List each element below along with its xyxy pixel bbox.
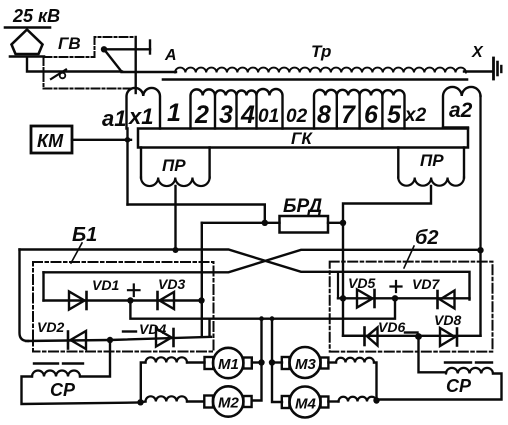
- diode VD2 cathode bar: [67, 332, 70, 349]
- motor M3: [290, 347, 321, 378]
- wire winding end X to ground: [464, 70, 492, 72]
- GV switch blade: [104, 49, 122, 71]
- diode VD7: [440, 291, 455, 309]
- wire SR to M2 coil: [141, 400, 146, 403]
- svg-text:СР: СР: [50, 380, 76, 400]
- svg-text:VD1: VD1: [92, 277, 119, 293]
- tap box a2 bottom edge: [443, 126, 468, 128]
- secondary tap group box 8-7-6-5: [314, 90, 404, 129]
- resistor BRD box: [280, 216, 329, 233]
- junction dot SR left output: [137, 399, 143, 405]
- transformer Tr primary winding: [175, 68, 466, 73]
- diode VD7 cathode bar: [436, 291, 439, 308]
- svg-text:х1: х1: [128, 104, 153, 129]
- diode VD1: [69, 292, 85, 310]
- secondary tap box a2: [443, 87, 481, 128]
- contact wire: [5, 26, 50, 29]
- tap divider 6|5: [381, 96, 383, 129]
- GV fixed contact line: [104, 48, 150, 50]
- junction dot M1 feed: [258, 359, 264, 365]
- motor M2 left brush: [204, 396, 213, 408]
- ground bar 2: [496, 62, 499, 75]
- diode VD4: [156, 329, 172, 347]
- rectifier B2 cabinet rect: [330, 262, 493, 352]
- junction dot KM riser: [125, 137, 131, 143]
- svg-text:КМ: КМ: [37, 131, 64, 151]
- SR left box: [22, 377, 141, 405]
- motor M4 right brush: [321, 397, 329, 408]
- wire a2 down right side: [479, 96, 481, 250]
- svg-text:М1: М1: [218, 356, 239, 373]
- disconnector blade: [51, 70, 66, 80]
- leader line B2: [404, 246, 414, 268]
- wire diode row VD5-VD7: [338, 297, 470, 299]
- motor M1: [213, 348, 243, 378]
- GV switch pivot dot: [101, 46, 107, 52]
- wire BRD left: [202, 222, 280, 224]
- motor M4: [290, 387, 321, 418]
- pantograph base: [10, 55, 44, 58]
- wire SR to M1 coil: [141, 363, 146, 403]
- svg-text:VD5: VD5: [348, 275, 375, 291]
- tap divider 2|3: [214, 96, 216, 129]
- wire pantograph to disconnector: [27, 57, 58, 72]
- diode VD1 cathode bar: [85, 292, 88, 309]
- svg-text:X: X: [471, 44, 484, 61]
- secondary tap box x1: [127, 88, 161, 129]
- motor M1 left brush: [205, 357, 214, 369]
- junction dot bus M3 branch: [270, 316, 275, 321]
- inductor M4 coil: [339, 397, 377, 402]
- wire diode row VD1-VD3: [44, 299, 202, 301]
- junction dot bus M1 branch: [259, 316, 264, 321]
- wire net A: B1 top edge to B2 inner box (crossover upper-left): [20, 250, 470, 300]
- smoothing reactor SR right dashes: [445, 361, 492, 363]
- tap divider 3|4: [235, 96, 237, 129]
- wire KM to x1 riser: [72, 139, 131, 141]
- junction dot VD5 left: [340, 295, 346, 301]
- transformer core line: [163, 78, 467, 81]
- motor M4 left brush: [282, 396, 290, 408]
- minus sign B2: [405, 331, 418, 333]
- diode VD8 cathode bar: [456, 329, 459, 346]
- wire x1 riser down: [126, 129, 128, 205]
- motor M2 right brush: [243, 396, 251, 407]
- rectifier B1 cabinet rect: [33, 262, 214, 352]
- svg-text:б2: б2: [415, 227, 439, 249]
- inductor M1 coil: [146, 357, 188, 362]
- motor M2: [213, 386, 243, 416]
- diode VD4 cathode bar: [172, 329, 175, 346]
- wire diode row VD6-VD8: [343, 335, 481, 337]
- motor M1 right brush: [243, 358, 251, 369]
- svg-text:а1: а1: [102, 106, 126, 131]
- plus sign B1: [128, 285, 140, 297]
- junction dot PR left tap: [173, 247, 179, 253]
- B1 inner box left edge: [42, 272, 44, 300]
- rectifier B1 outer left edge: [20, 250, 29, 342]
- svg-text:8: 8: [317, 101, 331, 129]
- diode VD6: [367, 328, 378, 346]
- svg-text:ГВ: ГВ: [58, 34, 81, 53]
- transition reactor PR right box: [398, 148, 464, 178]
- junction dot M3 feed: [269, 359, 275, 365]
- wire disconnector to GV blade foot: [60, 70, 122, 72]
- diode VD6 cathode bar: [363, 328, 366, 346]
- diode VD3: [160, 292, 175, 309]
- svg-text:СР: СР: [446, 376, 472, 396]
- diode VD5 cathode bar: [373, 290, 376, 307]
- leader line B1: [71, 243, 82, 263]
- wire bus to M1 M2: [252, 319, 262, 401]
- tap divider 4|01: [255, 96, 257, 129]
- PR left coil bottom: [141, 178, 210, 187]
- junction dot BRD right: [340, 220, 346, 226]
- svg-text:а2: а2: [449, 99, 473, 122]
- PR right coil bottom: [398, 178, 464, 186]
- svg-text:01: 01: [258, 106, 279, 127]
- svg-text:A: A: [164, 47, 177, 64]
- svg-text:VD7: VD7: [412, 276, 440, 292]
- wire diode row VD2-VD4: [26, 337, 211, 341]
- svg-text:25 кВ: 25 кВ: [12, 6, 60, 26]
- junction dot a2 riser: [477, 247, 483, 253]
- junction dot B2 plus node: [392, 295, 398, 301]
- motor M3 left brush: [282, 357, 290, 369]
- junction dot B1 plus node: [127, 297, 133, 303]
- svg-text:VD8: VD8: [434, 312, 461, 328]
- PR left center tap wire: [174, 186, 176, 250]
- junction dot M4 SR node: [373, 397, 379, 403]
- svg-text:1: 1: [167, 99, 181, 127]
- tap divider 7|6: [358, 96, 360, 129]
- inductor M3 coil: [336, 358, 374, 363]
- wire M3 coil elbow down: [374, 363, 377, 401]
- svg-text:ПР: ПР: [420, 151, 444, 170]
- junction dot BRD left: [262, 220, 268, 226]
- wire BRD right drop into B2: [343, 223, 364, 336]
- diode VD5: [357, 290, 373, 308]
- svg-text:6: 6: [364, 101, 379, 129]
- wire bus to M3 M4: [272, 319, 282, 402]
- wire M4 coil to SR node: [375, 401, 378, 402]
- svg-text:М4: М4: [295, 396, 316, 413]
- pantograph: [12, 30, 43, 55]
- svg-text:2: 2: [194, 101, 209, 129]
- wire BRD left drop into B1: [201, 223, 203, 337]
- junction dot B1 minus node: [107, 337, 113, 343]
- wire M1 coil to motor: [187, 361, 205, 363]
- wire GV to point A: [122, 71, 177, 73]
- wire M4 to coil: [328, 400, 338, 402]
- tap divider 8|7: [336, 96, 338, 129]
- svg-text:4: 4: [240, 101, 255, 129]
- ground bar 3: [500, 66, 502, 72]
- minus sign B1: [123, 330, 136, 332]
- GV enclosure dash-dot top: [44, 37, 136, 57]
- svg-text:VD3: VD3: [158, 276, 185, 292]
- svg-text:5: 5: [387, 101, 402, 129]
- B2 inner box left edge: [337, 273, 339, 298]
- secondary tap group box 2-3-4-01: [191, 89, 283, 128]
- wire net B: B1 inner box to terminal a2 (crossover lower-left): [44, 250, 481, 272]
- wire M3 tab to riser: [272, 361, 282, 363]
- wire B1 minus to SR left: [80, 340, 110, 377]
- diode VD8: [440, 328, 455, 346]
- svg-text:3: 3: [219, 101, 233, 129]
- ground bar 1: [492, 58, 495, 79]
- wire M2 coil to motor: [187, 400, 204, 402]
- wire B2 minus to SR right: [419, 337, 447, 373]
- plus sign B2: [391, 281, 402, 292]
- svg-text:Тр: Тр: [311, 42, 331, 61]
- disconnector hinge: [60, 73, 66, 79]
- SR right coil: [446, 368, 493, 374]
- wire riser to BRD left node: [128, 205, 265, 223]
- wire VD4 elbow to bus: [208, 319, 210, 337]
- PR right tap wire to BRD node: [343, 186, 431, 223]
- wire M3 to coil: [328, 361, 336, 363]
- transition reactor PR left box: [141, 148, 210, 178]
- controller KM box: [31, 126, 72, 153]
- motor M3 right brush: [321, 358, 329, 369]
- junction dot B2 minus node: [415, 333, 422, 340]
- smoothing reactor SR left dashes: [34, 362, 83, 364]
- wire VD8 right end riser: [479, 250, 481, 336]
- svg-text:VD6: VD6: [378, 319, 405, 335]
- svg-text:VD4: VD4: [139, 321, 166, 337]
- diode VD2: [71, 331, 87, 349]
- svg-text:М3: М3: [295, 356, 316, 373]
- svg-text:БРД: БРД: [283, 196, 322, 217]
- svg-text:Б1: Б1: [72, 224, 97, 246]
- diode VD3 cathode bar: [156, 292, 159, 309]
- svg-text:ГК: ГК: [291, 129, 313, 148]
- main controller GK box: [138, 129, 468, 148]
- svg-text:ПР: ПР: [162, 156, 186, 175]
- SR left coil: [32, 371, 80, 377]
- svg-text:02: 02: [286, 106, 308, 127]
- svg-text:7: 7: [341, 101, 356, 129]
- inductor M2 coil: [146, 396, 188, 401]
- svg-text:М2: М2: [218, 395, 239, 412]
- SR right box: [377, 374, 502, 400]
- svg-text:VD2: VD2: [37, 319, 64, 335]
- GV enclosure left edge: [43, 57, 45, 89]
- GV enclosure bottom edge: [44, 88, 135, 90]
- DC bus wire: [130, 298, 395, 318]
- svg-text:х2: х2: [404, 105, 427, 126]
- wire BRD right: [328, 222, 343, 224]
- wire GV to winding terminal a1: [134, 37, 136, 93]
- junction dot VD3 right: [198, 297, 204, 303]
- wire M1 tab to riser: [252, 361, 262, 363]
- GV contact T-bar: [149, 41, 151, 54]
